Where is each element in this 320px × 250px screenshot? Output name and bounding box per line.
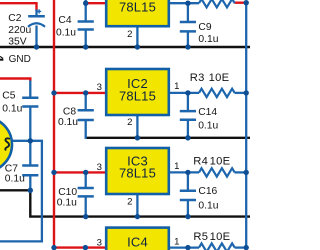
- svg-text:C9: C9: [198, 22, 211, 33]
- svg-text:0.1u: 0.1u: [5, 173, 25, 184]
- svg-text:1: 1: [174, 81, 179, 92]
- svg-text:3: 3: [97, 162, 102, 173]
- svg-text:C16: C16: [198, 186, 217, 197]
- svg-text:1: 1: [174, 236, 179, 247]
- svg-text:3: 3: [97, 237, 102, 248]
- svg-text:0.1u: 0.1u: [198, 121, 218, 132]
- svg-text:1: 1: [174, 161, 179, 172]
- svg-text:78L15: 78L15: [119, 0, 156, 15]
- svg-text:3: 3: [97, 82, 102, 93]
- svg-text:C5: C5: [2, 90, 15, 101]
- svg-text:C8: C8: [63, 107, 76, 118]
- svg-text:78L15: 78L15: [119, 89, 156, 104]
- svg-text:C2: C2: [8, 13, 21, 24]
- svg-text:10E: 10E: [210, 155, 231, 167]
- svg-text:10E: 10E: [210, 231, 231, 243]
- svg-text:R4: R4: [193, 155, 208, 167]
- svg-text:0.1u: 0.1u: [58, 117, 78, 128]
- svg-text:2: 2: [127, 29, 132, 40]
- svg-text:0.1u: 0.1u: [198, 201, 218, 212]
- svg-text:2: 2: [127, 117, 132, 128]
- svg-text:R5: R5: [193, 231, 208, 243]
- svg-text:IC4: IC4: [127, 234, 148, 249]
- svg-text:0.1u: 0.1u: [198, 34, 218, 45]
- svg-text:220u: 220u: [8, 25, 31, 36]
- svg-text:0.1u: 0.1u: [56, 28, 76, 39]
- svg-text:C4: C4: [58, 15, 71, 26]
- svg-text:78L15: 78L15: [119, 166, 156, 181]
- svg-text:GND: GND: [9, 54, 31, 65]
- svg-text:R3: R3: [190, 72, 205, 84]
- svg-text:10E: 10E: [209, 72, 230, 84]
- svg-text:C14: C14: [198, 107, 217, 118]
- svg-text:0.1u: 0.1u: [2, 104, 22, 115]
- svg-text:0.1u: 0.1u: [57, 197, 77, 208]
- svg-text:2: 2: [127, 196, 132, 207]
- svg-text:35V: 35V: [8, 37, 26, 48]
